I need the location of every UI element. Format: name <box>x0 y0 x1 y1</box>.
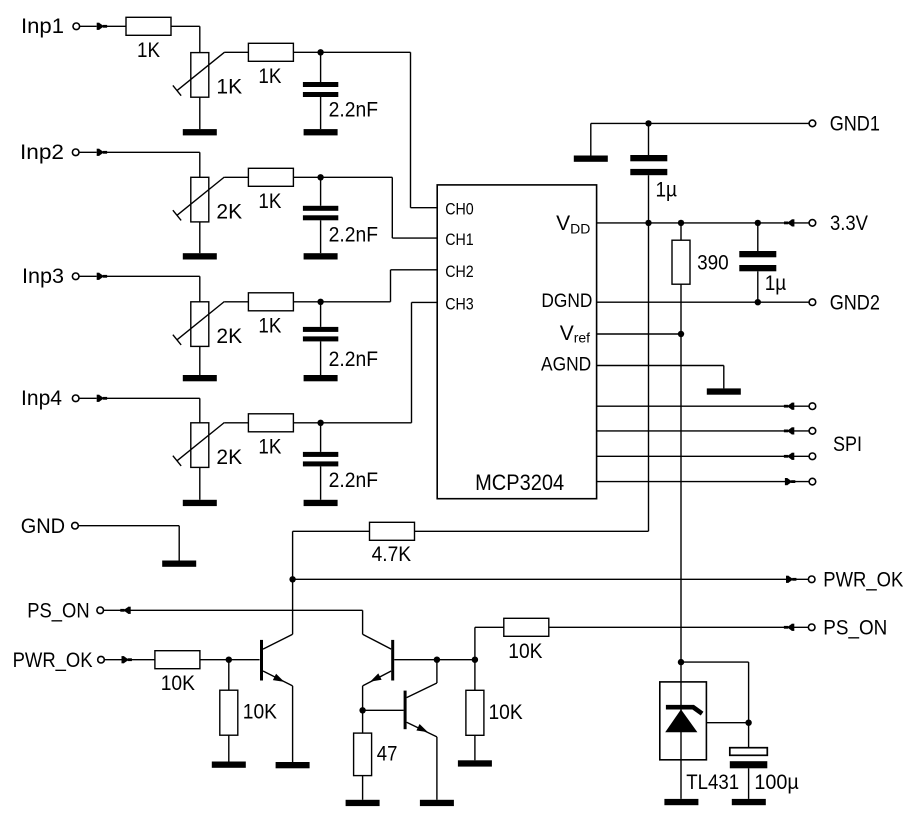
arrow PWR_OK out <box>786 576 796 583</box>
wire Vref down to TL431 <box>680 334 682 662</box>
svg-text:2.2nF: 2.2nF <box>329 348 378 371</box>
svg-text:2.2nF: 2.2nF <box>329 223 378 246</box>
potentiometer RV4 <box>173 423 225 468</box>
node GND1-C5 <box>645 120 651 126</box>
resistor R3 <box>248 168 293 186</box>
arrow SPI4 <box>785 478 795 485</box>
wire Q3 emitter <box>436 737 438 800</box>
svg-text:1µ: 1µ <box>656 179 678 202</box>
resistor R7 <box>370 522 415 540</box>
potentiometer RV3 <box>173 302 225 347</box>
wire RV2 to ground <box>199 222 201 253</box>
wire R6 to Vref node <box>680 284 682 334</box>
svg-text:3.3V: 3.3V <box>830 212 868 235</box>
resistor R1 <box>126 17 171 35</box>
ground TL431 <box>664 799 698 805</box>
wire Q1 emitter <box>292 686 294 762</box>
svg-text:10K: 10K <box>489 701 523 724</box>
svg-text:1µ: 1µ <box>765 272 787 295</box>
wire RV3 to ground <box>199 346 201 375</box>
capacitor C4 <box>303 452 338 467</box>
terminal GND1 <box>809 120 816 127</box>
ground RV3 <box>183 375 217 381</box>
capacitor C1 <box>303 82 338 97</box>
ground RV1 <box>183 129 217 135</box>
wire VDD down to 4.7K <box>648 223 650 531</box>
node TL431 ref <box>745 720 751 726</box>
node inp2 <box>317 174 323 180</box>
input arrow Inp3 <box>97 273 107 280</box>
ground R10 <box>346 800 380 806</box>
ground C4 <box>304 500 338 506</box>
resistor R5 <box>248 414 293 432</box>
wire R1 to RV1 <box>171 26 200 52</box>
svg-text:Inp3: Inp3 <box>22 265 64 288</box>
wire RV1 wiper to R2 <box>224 51 248 53</box>
node PWR_OK <box>289 576 295 582</box>
wire R10 to ground <box>362 776 364 800</box>
arrow SPI1 <box>784 403 794 410</box>
wire C1 to ground <box>320 97 322 129</box>
wire node to R10 <box>362 710 364 733</box>
wire Inp2 to RV2 <box>79 152 200 177</box>
wire C2 to ground <box>320 220 322 253</box>
svg-text:GND1: GND1 <box>830 113 880 136</box>
svg-text:2K: 2K <box>216 325 242 348</box>
svg-text:100µ: 100µ <box>754 771 798 794</box>
node TL431 cathode <box>678 659 684 665</box>
svg-text:2.2nF: 2.2nF <box>329 469 378 492</box>
wire Q3 collector <box>436 660 438 683</box>
wire C3 to ground <box>320 341 322 375</box>
wire R3 to chip <box>293 177 437 238</box>
wire RV4 to ground <box>199 467 201 499</box>
node GND2-C6 <box>755 299 761 305</box>
svg-text:MCP3204: MCP3204 <box>475 470 564 495</box>
node VDD-R6 <box>678 220 684 226</box>
svg-text:PS_ON: PS_ON <box>27 599 89 622</box>
capacitor C2 <box>303 206 338 221</box>
wire Vref pin <box>597 333 681 335</box>
wire node to C4 <box>320 423 322 452</box>
wire Q2 emitter <box>362 686 364 710</box>
wire R5 to chip <box>293 302 437 422</box>
svg-text:TL431: TL431 <box>686 771 739 794</box>
wire node to C1 <box>320 52 322 82</box>
wire RV1 to ground <box>199 97 201 129</box>
wire R8 to Q1 base <box>200 659 260 661</box>
wire TL431 cathode branch <box>681 662 749 723</box>
svg-text:GND2: GND2 <box>830 292 880 315</box>
ground R11 <box>458 760 492 766</box>
svg-text:AGND: AGND <box>541 354 591 375</box>
wire R11 to ground <box>474 735 476 760</box>
wire C6 to GND2 <box>757 271 759 302</box>
input arrow Inp2 <box>97 149 107 156</box>
potentiometer RV2 <box>173 177 225 222</box>
arrow PS_ON left <box>120 607 130 614</box>
node Q2 base-R11 <box>472 657 478 663</box>
ground GND1 branch <box>574 156 608 162</box>
ground GND <box>162 561 196 567</box>
svg-text:10K: 10K <box>508 640 542 663</box>
wire PWR_OK out <box>293 578 810 580</box>
resistor R6 <box>672 240 690 284</box>
wire Q3 base <box>363 709 404 711</box>
shunt reference D1 TL431 <box>660 662 707 799</box>
wire C7 to ground <box>748 768 750 799</box>
terminal PWR_OK right <box>808 576 815 583</box>
wire TL431 ref <box>706 722 748 724</box>
svg-text:GND: GND <box>21 515 65 538</box>
wire Q2 base row <box>394 659 475 661</box>
svg-text:4.7K: 4.7K <box>372 543 412 566</box>
terminal PS_ON left <box>97 607 104 614</box>
svg-text:Inp2: Inp2 <box>20 141 64 164</box>
wire RV4 wiper to R5 <box>225 422 249 424</box>
capacitor C7 100u polarized <box>730 748 768 769</box>
svg-text:1K: 1K <box>216 76 242 99</box>
svg-text:1K: 1K <box>258 65 281 88</box>
svg-text:47: 47 <box>377 742 398 765</box>
ground C1 <box>304 129 338 135</box>
svg-text:PWR_OK: PWR_OK <box>823 569 903 592</box>
node inp3 <box>317 299 323 305</box>
svg-text:CH2: CH2 <box>445 263 474 281</box>
input arrow Inp1 <box>97 23 107 30</box>
svg-text:Inp4: Inp4 <box>21 387 62 410</box>
svg-text:390: 390 <box>697 252 729 275</box>
node ch1 <box>317 49 323 55</box>
capacitor C3 <box>303 327 338 342</box>
svg-text:1K: 1K <box>137 39 160 62</box>
terminal SPI1 <box>809 403 816 410</box>
svg-text:1K: 1K <box>258 190 281 213</box>
resistor R9 <box>220 690 238 735</box>
wire SPI2 <box>597 430 810 432</box>
svg-text:DGND: DGND <box>541 291 592 312</box>
ground R9 <box>212 762 246 768</box>
wire RV3 wiper to R4 <box>225 301 249 303</box>
svg-text:CH0: CH0 <box>445 201 474 219</box>
wire PWR_OK node to Q1 collector <box>292 579 294 634</box>
wire PS_ON to R12 <box>475 627 504 659</box>
ground Q1 emitter <box>276 762 310 768</box>
svg-text:CH1: CH1 <box>445 231 474 249</box>
wire SPI4 <box>597 481 810 483</box>
wire C5 top <box>648 123 650 155</box>
power arrow 3.3V <box>784 219 794 226</box>
svg-text:Inp1: Inp1 <box>21 15 64 38</box>
terminal Inp2 <box>72 149 79 156</box>
svg-text:1K: 1K <box>258 435 281 458</box>
wire Inp1 to R1 <box>80 25 126 27</box>
svg-text:PWR_OK: PWR_OK <box>13 649 93 672</box>
wire node to C2 <box>320 177 322 206</box>
node inp4 <box>317 420 323 426</box>
wire DGND to GND2 <box>597 301 810 303</box>
terminal SPI4 <box>809 478 816 485</box>
arrow SPI2 <box>784 427 794 434</box>
node Q1 base <box>226 657 232 663</box>
wire 3.3V to C6 <box>757 223 759 251</box>
wire 4.7K right <box>415 530 649 532</box>
terminal Inp4 <box>72 395 79 402</box>
capacitor C5 <box>630 155 667 175</box>
svg-text:2K: 2K <box>216 201 242 224</box>
svg-text:CH3: CH3 <box>445 295 474 313</box>
svg-text:1K: 1K <box>258 314 281 337</box>
wire VDD to 3.3V <box>597 222 810 224</box>
wire SPI3 <box>597 455 810 457</box>
wire SPI1 <box>597 405 810 407</box>
wire node to C3 <box>320 302 322 327</box>
wire R2 to CH0 <box>293 52 437 207</box>
node VDD-C6 <box>755 220 761 226</box>
wire VDD to R6 <box>680 223 682 240</box>
wire PWR_OK in to R8 <box>104 659 154 661</box>
resistor R8 <box>155 651 200 669</box>
arrow SPI3 <box>784 453 794 460</box>
resistor R12 <box>504 618 549 636</box>
wire node to R9 <box>228 660 230 691</box>
wire RV2 wiper to R3 <box>225 176 249 178</box>
ground RV4 <box>183 500 217 506</box>
terminal SPI2 <box>809 428 816 435</box>
transistor Q3 <box>404 683 437 737</box>
wire R9 to ground <box>228 735 230 761</box>
wire node to R11 <box>474 660 476 691</box>
wire C7 top <box>748 723 750 748</box>
terminal PWR_OK left <box>98 656 105 663</box>
ground Q3 emitter <box>420 800 454 806</box>
ground RV2 <box>183 253 217 259</box>
ground C3 <box>304 375 338 381</box>
terminal Inp3 <box>72 273 79 280</box>
ground C2 <box>304 253 338 259</box>
IC U1 MCP3204 ADC <box>437 185 596 499</box>
svg-text:SPI: SPI <box>833 433 862 456</box>
wire C5 to VDD <box>648 175 650 223</box>
svg-text:10K: 10K <box>243 701 277 724</box>
svg-text:2.2nF: 2.2nF <box>329 98 378 121</box>
svg-text:2K: 2K <box>216 446 242 469</box>
wire R12 to PS_ON terminal <box>549 626 809 628</box>
node Q2 emitter <box>359 707 365 713</box>
potentiometer RV1 <box>173 52 225 97</box>
resistor R2 <box>248 43 293 61</box>
capacitor C6 <box>739 251 776 271</box>
svg-text:10K: 10K <box>161 672 195 695</box>
wire C4 to ground <box>320 466 322 499</box>
transistor Q1 <box>260 634 293 686</box>
wire GND1 net <box>591 123 809 155</box>
terminal Inp1 <box>73 23 80 30</box>
transistor Q2 <box>363 634 395 686</box>
wire R4 to chip <box>293 270 437 302</box>
node Q2-Q3 <box>434 657 440 663</box>
svg-text:PS_ON: PS_ON <box>823 617 887 640</box>
resistor R11 <box>466 690 484 735</box>
arrow PWR_OK in <box>122 656 132 663</box>
wire Inp3 to RV3 <box>79 276 200 302</box>
wire GND <box>78 526 179 561</box>
input arrow Inp4 <box>97 395 107 402</box>
terminal GND <box>72 522 79 529</box>
wire 4.7K left <box>293 531 370 579</box>
wire Inp4 to RV4 <box>79 398 200 423</box>
ground AGND <box>707 388 741 394</box>
terminal PS_ON right <box>808 624 815 631</box>
terminal GND2 <box>809 299 816 306</box>
node VDD-C5 <box>645 220 651 226</box>
resistor R10 <box>354 733 372 776</box>
arrow PS_ON right <box>784 624 794 631</box>
terminal 3.3V <box>809 220 816 227</box>
resistor R4 <box>248 293 293 311</box>
terminal SPI3 <box>809 453 816 460</box>
wire AGND <box>597 366 724 389</box>
node Vref <box>678 331 684 337</box>
ground C7 <box>732 799 766 805</box>
wire PS_ON left <box>104 610 363 634</box>
